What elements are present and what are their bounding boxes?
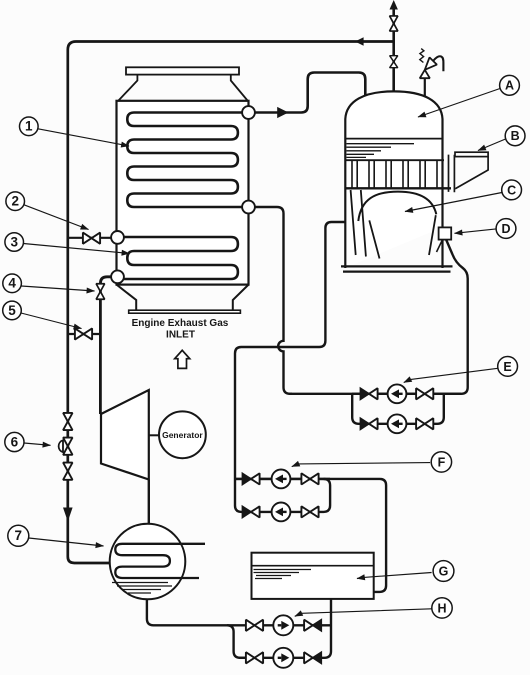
svg-text:G: G bbox=[439, 564, 449, 578]
svg-text:B: B bbox=[511, 129, 520, 143]
svg-text:2: 2 bbox=[11, 194, 19, 209]
svg-text:A: A bbox=[505, 79, 514, 93]
svg-text:Engine Exhaust Gas: Engine Exhaust Gas bbox=[132, 318, 229, 329]
svg-text:D: D bbox=[501, 222, 510, 236]
svg-text:Generator: Generator bbox=[162, 430, 203, 440]
svg-text:INLET: INLET bbox=[166, 330, 195, 341]
svg-text:E: E bbox=[503, 360, 511, 374]
svg-text:F: F bbox=[438, 455, 446, 469]
svg-text:H: H bbox=[437, 601, 446, 615]
svg-text:6: 6 bbox=[11, 434, 19, 449]
svg-text:5: 5 bbox=[8, 303, 16, 318]
svg-text:3: 3 bbox=[10, 234, 18, 249]
svg-text:4: 4 bbox=[8, 276, 16, 291]
svg-text:1: 1 bbox=[25, 119, 33, 134]
svg-text:7: 7 bbox=[15, 528, 23, 543]
svg-text:C: C bbox=[507, 183, 516, 197]
